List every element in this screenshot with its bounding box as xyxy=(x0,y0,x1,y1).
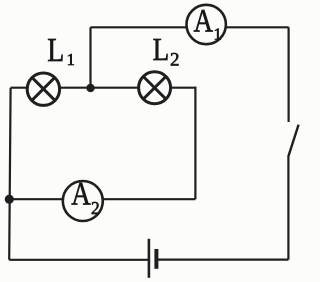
node junction dot left xyxy=(5,195,14,204)
wire top horizontal xyxy=(91,26,289,28)
wire right upper vertical xyxy=(288,27,290,122)
svg-text:L: L xyxy=(47,30,64,68)
wire bottom right horizontal xyxy=(157,259,289,261)
svg-text:A: A xyxy=(194,2,214,39)
wire A2 row horizontal xyxy=(9,198,195,200)
wire left vertical xyxy=(9,88,10,260)
svg-text:1: 1 xyxy=(67,50,75,69)
svg-text:L: L xyxy=(153,33,170,67)
ammeter A1 xyxy=(187,2,226,44)
label L1 xyxy=(47,30,75,69)
wire right branch vertical xyxy=(194,87,196,200)
wire right lower vertical xyxy=(287,156,289,260)
switch S1 blade xyxy=(288,125,298,157)
wire junction to top vertical xyxy=(89,27,91,87)
svg-text:1: 1 xyxy=(214,24,222,43)
battery B1 short plate xyxy=(154,249,158,269)
svg-text:2: 2 xyxy=(170,49,180,70)
ammeter A2 xyxy=(63,175,103,221)
lamp L2 xyxy=(139,72,171,104)
lamp L1 xyxy=(27,73,59,105)
svg-text:A: A xyxy=(71,175,91,212)
node junction dot top xyxy=(86,84,94,92)
svg-text:2: 2 xyxy=(91,198,100,218)
label L2 xyxy=(153,33,180,71)
battery B1 long plate xyxy=(148,239,151,278)
wire bottom left horizontal xyxy=(9,259,149,261)
wire lamp row horizontal xyxy=(11,87,196,89)
